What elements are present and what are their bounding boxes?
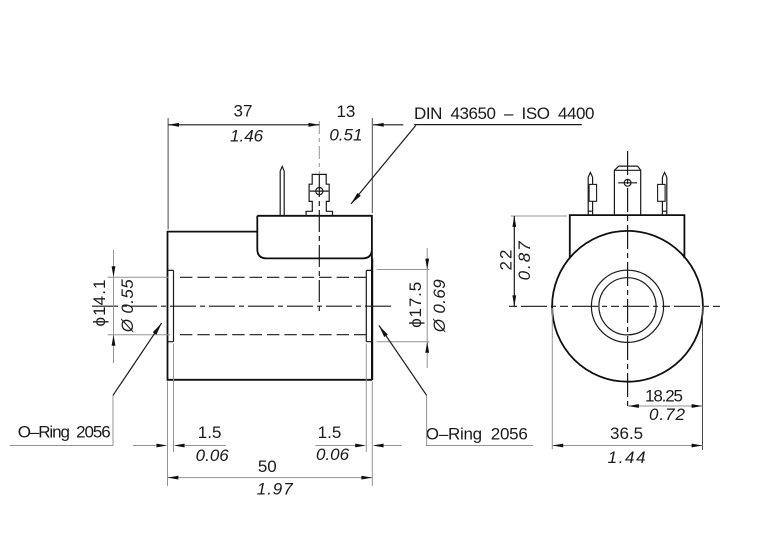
front view center ground tab bbox=[614, 166, 640, 215]
front view horizontal centerline bbox=[509, 305, 720, 307]
svg-text:ϕ14.1: ϕ14.1 bbox=[90, 280, 109, 327]
vertical centerline side view bbox=[318, 121, 320, 313]
ground terminal hole bbox=[310, 188, 329, 195]
front view connector block bbox=[570, 215, 685, 258]
front view left blade terminal bbox=[588, 172, 596, 215]
svg-text:0.51: 0.51 bbox=[329, 126, 362, 145]
dimension 1.5 right bbox=[315, 344, 401, 465]
front view vertical centerline bbox=[627, 151, 629, 409]
svg-text:50: 50 bbox=[258, 457, 277, 476]
svg-text:0.87: 0.87 bbox=[515, 241, 534, 281]
svg-text:1.46: 1.46 bbox=[230, 127, 264, 146]
svg-text:0.06: 0.06 bbox=[196, 446, 230, 465]
svg-text:1.5: 1.5 bbox=[198, 423, 222, 442]
svg-text:13: 13 bbox=[336, 102, 355, 121]
svg-text:1.5: 1.5 bbox=[318, 423, 342, 442]
o-ring groove step left bbox=[168, 270, 174, 341]
svg-text:37: 37 bbox=[234, 102, 253, 121]
svg-text:1.44: 1.44 bbox=[608, 448, 646, 467]
connector pin blade (side view) bbox=[280, 166, 284, 215]
DIN 43650 - ISO 4400 label and leader bbox=[351, 104, 595, 204]
O-Ring 2056 label left bbox=[10, 323, 162, 445]
svg-text:Ø 0.55: Ø 0.55 bbox=[118, 279, 137, 334]
front view bore ring outer bbox=[591, 270, 663, 342]
dimension 13 bbox=[329, 102, 403, 213]
connector housing side view bbox=[257, 216, 372, 380]
dimension 37 bbox=[168, 102, 319, 230]
horizontal centerline side view bbox=[92, 305, 394, 307]
svg-text:ϕ17.5: ϕ17.5 bbox=[406, 282, 425, 328]
svg-text:Ø 0.69: Ø 0.69 bbox=[430, 279, 449, 334]
hidden bore lines (dashed) bbox=[180, 277, 366, 334]
dimension 22 bbox=[496, 216, 567, 306]
front view coil circle bbox=[552, 231, 703, 382]
coil body side view outline bbox=[168, 232, 373, 380]
svg-text:1.97: 1.97 bbox=[257, 480, 294, 499]
o-ring groove step right bbox=[366, 270, 372, 341]
svg-text:DIN 43650 – ISO 4400: DIN 43650 – ISO 4400 bbox=[414, 104, 595, 123]
dimension 1.5 left bbox=[133, 344, 229, 465]
O-Ring 2056 label right bbox=[379, 326, 533, 446]
ground terminal castle (side view) bbox=[306, 174, 332, 215]
svg-text:36.5: 36.5 bbox=[610, 424, 643, 443]
dimension 36.5 bbox=[552, 308, 702, 467]
dimension 50 overall bbox=[168, 382, 373, 499]
front view tab hole bbox=[618, 179, 637, 186]
dimension dia 17.5 bbox=[377, 248, 449, 368]
svg-text:O–Ring 2056: O–Ring 2056 bbox=[18, 423, 111, 442]
svg-text:18.25: 18.25 bbox=[645, 386, 683, 405]
svg-text:0.06: 0.06 bbox=[316, 445, 350, 464]
svg-text:O–Ring 2056: O–Ring 2056 bbox=[426, 424, 528, 443]
dimension 18.25 bbox=[628, 306, 703, 450]
dimension dia 14.1 bbox=[90, 250, 170, 363]
svg-text:0.72: 0.72 bbox=[649, 405, 686, 424]
front view right blade terminal bbox=[658, 172, 667, 215]
front view bore ring inner bbox=[599, 278, 656, 335]
